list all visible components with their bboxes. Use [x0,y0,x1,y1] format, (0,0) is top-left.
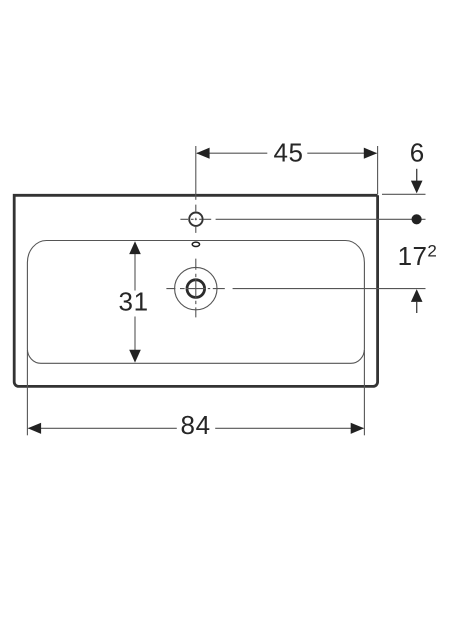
dimension line 84 [29,427,364,429]
svg-text:45: 45 [273,137,303,167]
arrow for 6 pointing down to top edge [416,169,418,182]
arrowhead right of 84 [351,423,364,434]
arrowhead left of 45 [196,148,209,159]
tap hole [189,213,202,226]
tick line at top edge level right of sink [382,193,426,195]
washbasin outer outline [14,195,377,386]
basin inner bowl outline [27,241,364,364]
svg-text:31: 31 [119,287,149,317]
drain inner circle [187,280,205,298]
drain centreline vertical [195,259,197,318]
svg-text:6: 6 [410,137,424,167]
tap hole centre reference line to the right [216,218,426,220]
tap hole crosshair horizontal [180,218,211,220]
extension line for 84 left [26,350,28,435]
dimension line 45 [197,152,267,154]
extension line for 84 right [363,350,365,435]
svg-text:172: 172 [398,241,438,271]
tap hole crosshair vertical [195,205,197,233]
drain outer circle [175,267,217,309]
arrowhead left of 84 [28,423,41,434]
arrowhead bottom of 31 [129,350,141,363]
svg-text:84: 84 [181,410,211,440]
extension line for 45 at right edge [377,146,379,194]
drain centreline horizontal and reference line to the right [166,288,425,290]
reference dot on tap centre line [412,214,422,224]
extension line for 45 at tap hole centre [195,146,197,200]
arrowhead right of 45 [364,148,377,159]
dimension line 31 [134,254,136,351]
arrowhead top of 31 [129,241,141,254]
arrow for 17 pointing up to drain centre line [411,289,423,302]
overflow slot [192,242,199,246]
